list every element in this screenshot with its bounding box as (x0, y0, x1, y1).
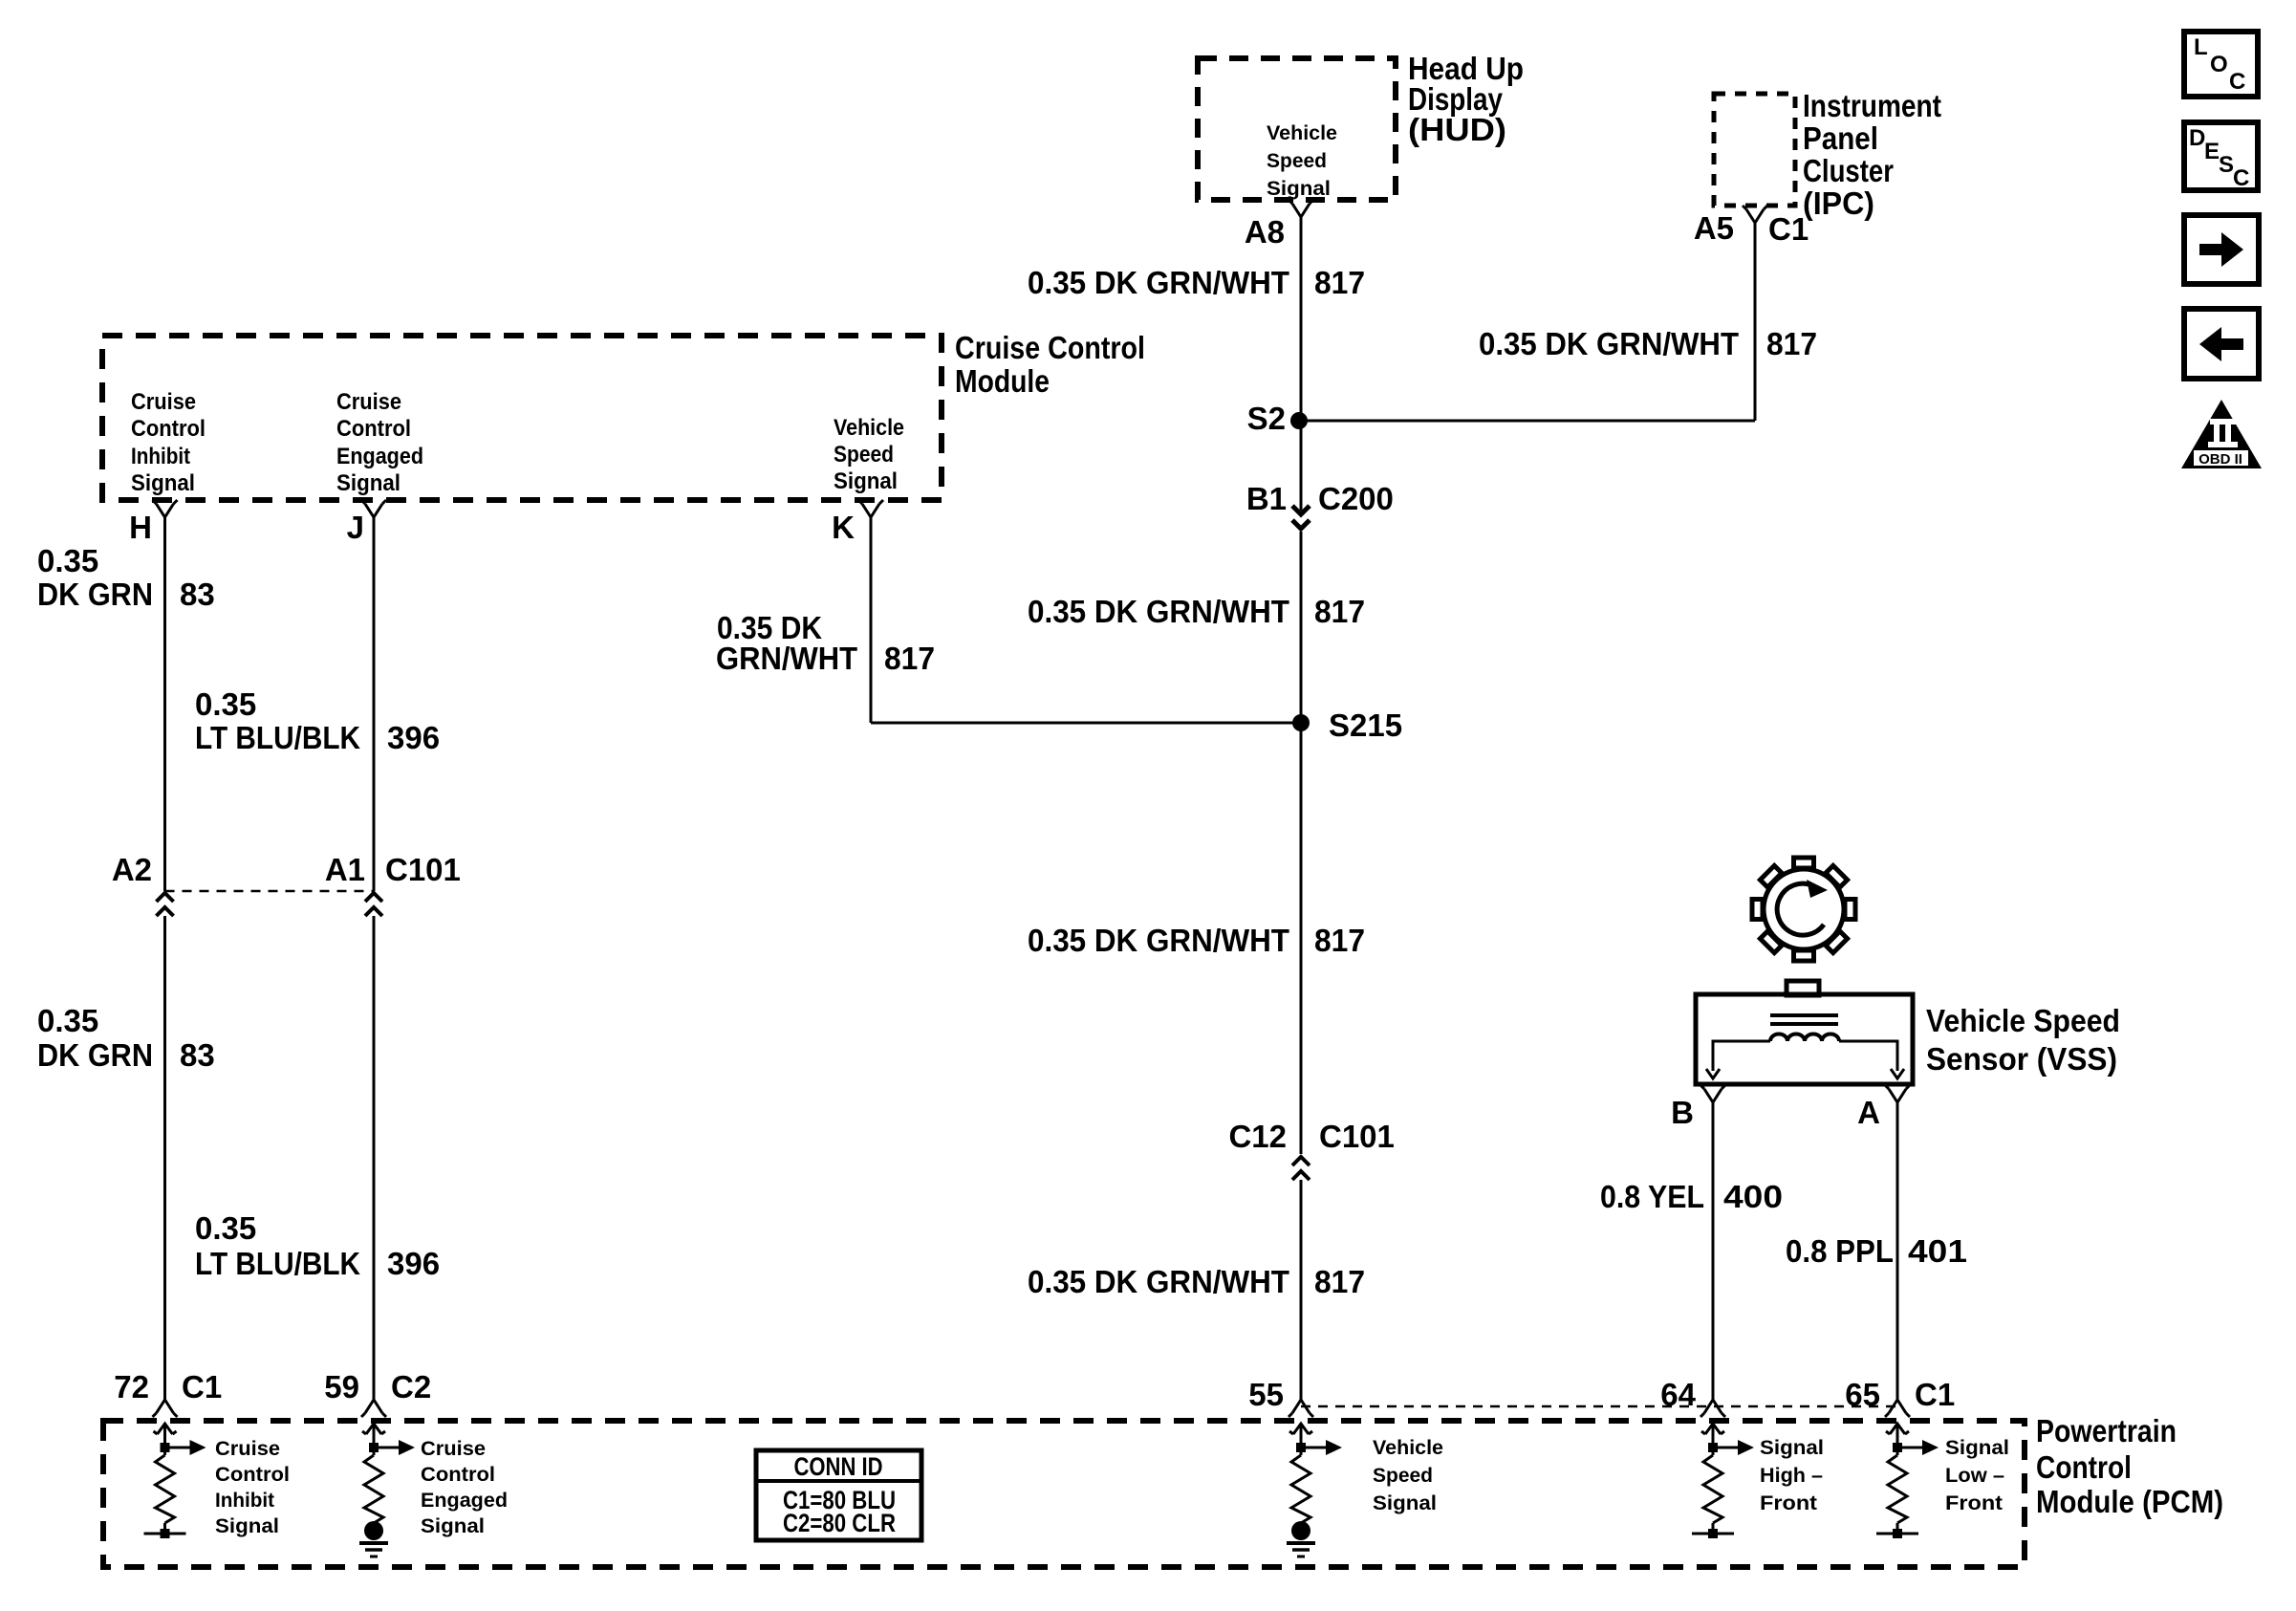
in-line connector C200 pin B1 (double chevrons) (1292, 506, 1310, 529)
splice S2 junction dot (1290, 412, 1308, 429)
svg-text:Signal: Signal (421, 1514, 485, 1537)
C101 label (C12) (1319, 1119, 1395, 1154)
svg-text:E: E (2204, 139, 2220, 164)
in-line connector C101 pin A2 chevrons (157, 893, 174, 916)
svg-text:Low –: Low – (1945, 1464, 2004, 1487)
svg-text:401: 401 (1908, 1233, 1967, 1269)
svg-text:GRN/WHT: GRN/WHT (716, 641, 857, 676)
pin A connector at VSS (1885, 1085, 1910, 1102)
C200 label (1318, 481, 1394, 516)
svg-text:83: 83 (180, 577, 215, 612)
svg-text:Cruise: Cruise (336, 389, 401, 415)
in-line connector C101 pin C12 chevrons (1292, 1157, 1310, 1180)
right arrow icon box (2184, 215, 2259, 284)
PCM input resistor circuit pin 65 (1876, 1424, 1939, 1538)
svg-text:Signal: Signal (215, 1514, 279, 1537)
pin A5 connector at IPC (1743, 206, 1767, 223)
svg-text:A: A (1857, 1095, 1880, 1130)
wire 817 from HUD A8 down to S2 (1300, 217, 1303, 421)
Powertrain Control Module (PCM) box (103, 1421, 2025, 1567)
svg-text:65: 65 (1845, 1377, 1880, 1412)
IPC title text (1803, 88, 1941, 221)
PCM internal label: Vehicle Speed Signal (1373, 1436, 1443, 1514)
svg-text:(IPC): (IPC) (1803, 185, 1874, 221)
wire label 0.35 DK GRN/WHT 817 (IPC drop) (1479, 326, 1817, 361)
CCM internal label: Cruise Control Engaged Signal (336, 389, 423, 496)
PCM input resistor circuit pin 55 with ground (1287, 1424, 1342, 1557)
PCM input resistor circuit pin 64 (1692, 1424, 1754, 1538)
wire K horizontal to S215 (871, 722, 1301, 725)
pin 64 connector at PCM (1700, 1400, 1725, 1417)
PCM title text (2036, 1413, 2223, 1519)
C101 label (A1) (385, 852, 461, 887)
VSS title text (1926, 1003, 2120, 1077)
svg-text:Instrument: Instrument (1803, 88, 1941, 123)
left arrow icon box (2184, 309, 2259, 379)
svg-text:Signal: Signal (1760, 1436, 1824, 1459)
pin 64 label (1660, 1377, 1696, 1412)
svg-text:396: 396 (387, 720, 440, 755)
svg-text:A8: A8 (1245, 214, 1285, 250)
pin K connector (858, 500, 883, 517)
svg-text:0.35 DK GRN/WHT: 0.35 DK GRN/WHT (1479, 326, 1739, 361)
svg-text:396: 396 (387, 1246, 440, 1281)
splice S215 junction dot (1292, 714, 1310, 731)
wire label 0.35 DK GRN/WHT 817 (C200-S215) (1028, 594, 1365, 629)
pin 65 connector at PCM (1885, 1400, 1910, 1417)
svg-text:817: 817 (1314, 1264, 1365, 1299)
C1 label (72) (182, 1369, 222, 1404)
CONN ID table (756, 1450, 921, 1540)
wire label 0.35 DK GRN/WHT 817 (C12-55) (1028, 1264, 1365, 1299)
wire label 0.35 DK GRN 83 (upper H) (37, 543, 215, 612)
pin 59 connector at PCM (361, 1400, 386, 1417)
svg-text:817: 817 (1314, 923, 1365, 958)
svg-text:Panel: Panel (1803, 120, 1878, 156)
svg-text:Module (PCM): Module (PCM) (2036, 1484, 2223, 1519)
svg-text:Control: Control (336, 416, 411, 442)
pin 72 label (114, 1369, 149, 1404)
PCM internal label: Cruise Control Engaged Signal (421, 1437, 508, 1537)
pin 55 connector at PCM (1289, 1400, 1313, 1417)
pin J label (347, 510, 364, 545)
wire H upper segment (163, 517, 166, 891)
svg-text:0.8 PPL: 0.8 PPL (1786, 1233, 1894, 1269)
svg-text:C200: C200 (1318, 481, 1394, 516)
svg-text:83: 83 (180, 1037, 215, 1073)
svg-text:Signal: Signal (1945, 1436, 2009, 1459)
VSS reluctor gear icon (1752, 858, 1855, 961)
in-line connector C101 pin A1 chevrons (365, 893, 382, 916)
svg-text:C1: C1 (182, 1369, 222, 1404)
svg-text:Front: Front (1945, 1491, 2003, 1514)
wire 817 from S215 to C101 C12 (1300, 723, 1303, 1154)
svg-text:817: 817 (1314, 265, 1365, 300)
svg-text:817: 817 (1766, 326, 1817, 361)
pin H label (129, 510, 152, 545)
wire label 0.35 DK GRN/WHT 817 (S215-C12) (1028, 923, 1365, 958)
svg-text:A5: A5 (1694, 210, 1734, 246)
svg-text:C: C (2233, 165, 2249, 191)
pin A8 label (1245, 214, 1285, 250)
svg-text:C1: C1 (1915, 1377, 1955, 1412)
svg-text:0.35: 0.35 (37, 1003, 98, 1038)
S215 label (1329, 708, 1402, 743)
PCM input resistor circuit pin 59 with ground (359, 1424, 415, 1557)
Head Up Display (HUD) module box (1198, 58, 1396, 200)
svg-text:C1: C1 (1768, 211, 1809, 247)
Cruise Control Module title (955, 330, 1145, 399)
pin H connector (153, 500, 178, 517)
HUD title text (1408, 51, 1524, 147)
pin 65 label (1845, 1377, 1880, 1412)
svg-text:Cruise: Cruise (131, 389, 196, 415)
svg-text:Cruise Control: Cruise Control (955, 330, 1145, 365)
wire H lower segment (163, 916, 166, 1400)
svg-text:(HUD): (HUD) (1408, 112, 1506, 147)
wire from K down to S215 level (870, 517, 873, 723)
svg-text:Inhibit: Inhibit (131, 444, 190, 469)
svg-text:Front: Front (1760, 1491, 1817, 1514)
pin 55 label (1248, 1377, 1284, 1412)
svg-text:Sensor (VSS): Sensor (VSS) (1926, 1041, 2117, 1077)
wire 817 from S2 to C200 (1300, 421, 1303, 511)
svg-text:Inhibit: Inhibit (215, 1489, 274, 1512)
svg-text:817: 817 (1314, 594, 1365, 629)
wire label 0.35 DK GRN/WHT 817 (HUD drop) (1028, 265, 1365, 300)
svg-text:Vehicle: Vehicle (1267, 121, 1337, 144)
svg-text:S2: S2 (1247, 401, 1286, 436)
wire from IPC A5 down to S2 branch (1754, 223, 1757, 421)
svg-text:0.35 DK GRN/WHT: 0.35 DK GRN/WHT (1028, 923, 1289, 958)
wire label 0.8 YEL 400 (1600, 1179, 1783, 1214)
svg-text:Signal: Signal (336, 470, 401, 496)
pin A label (1857, 1095, 1880, 1130)
CCM internal label: Cruise Control Inhibit Signal (131, 389, 206, 496)
PCM internal label: Signal High - Front (1760, 1436, 1824, 1514)
svg-text:C: C (2229, 69, 2245, 95)
LOC icon box (2184, 32, 2258, 97)
svg-text:Speed: Speed (1267, 149, 1327, 172)
pin C1 label at IPC (1768, 211, 1809, 247)
svg-text:Engaged: Engaged (421, 1489, 508, 1512)
svg-text:D: D (2189, 125, 2205, 151)
C101 dashed connector line A2-A1 (165, 890, 375, 893)
svg-text:Vehicle: Vehicle (834, 415, 904, 441)
Vehicle Speed Sensor (VSS) body box (1696, 981, 1913, 1084)
wire label 0.35 LT BLU/BLK 396 (upper J) (195, 686, 440, 755)
wire 817 from C12 to PCM pin 55 (1300, 1180, 1303, 1400)
pin 59 label (324, 1369, 359, 1404)
svg-text:Engaged: Engaged (336, 444, 423, 469)
svg-text:B1: B1 (1246, 481, 1287, 516)
svg-text:CONN ID: CONN ID (794, 1452, 883, 1481)
svg-text:LT BLU/BLK: LT BLU/BLK (195, 720, 360, 755)
svg-text:Control: Control (215, 1463, 290, 1486)
wire J upper segment (373, 517, 376, 891)
svg-text:Cluster: Cluster (1803, 153, 1894, 188)
svg-text:0.35 DK GRN/WHT: 0.35 DK GRN/WHT (1028, 594, 1289, 629)
Cruise Control Module box (102, 336, 942, 500)
svg-text:C2: C2 (391, 1369, 431, 1404)
svg-text:OBD II: OBD II (2199, 451, 2242, 468)
svg-text:C101: C101 (385, 852, 461, 887)
wire label 0.35 LT BLU/BLK 396 (lower J) (195, 1210, 440, 1281)
svg-text:Speed: Speed (1373, 1464, 1433, 1487)
PCM C1 connector thin dashed line (1301, 1405, 1897, 1408)
B1 label (1246, 481, 1287, 516)
S2 label (1247, 401, 1286, 436)
HUD internal label: Vehicle Speed Signal (1267, 121, 1337, 200)
svg-text:Signal: Signal (1267, 177, 1331, 200)
svg-text:K: K (832, 510, 855, 545)
pin A5 label (1694, 210, 1734, 246)
svg-text:A1: A1 (325, 852, 365, 887)
svg-text:Control: Control (421, 1463, 495, 1486)
svg-text:0.35: 0.35 (37, 543, 98, 578)
svg-text:L: L (2194, 34, 2208, 60)
C2 label (59) (391, 1369, 431, 1404)
svg-text:Module: Module (955, 363, 1050, 399)
svg-text:Vehicle: Vehicle (1373, 1436, 1443, 1459)
svg-text:J: J (347, 510, 364, 545)
svg-text:S215: S215 (1329, 708, 1402, 743)
svg-text:Vehicle Speed: Vehicle Speed (1926, 1003, 2120, 1038)
pin B connector at VSS (1700, 1085, 1725, 1102)
wire 817 from C200 to S215 (1300, 532, 1303, 723)
VSS core lines (1770, 1015, 1838, 1024)
svg-text:Signal: Signal (1373, 1491, 1437, 1514)
wire label 0.35 DK GRN/WHT 817 (K branch) (716, 610, 935, 676)
svg-text:S: S (2219, 152, 2234, 178)
CCM internal label: Vehicle Speed Signal (834, 415, 904, 494)
pin B label (1671, 1095, 1694, 1130)
svg-text:H: H (129, 510, 152, 545)
Instrument Panel Cluster (IPC) module box (1714, 94, 1795, 206)
svg-text:59: 59 (324, 1369, 359, 1404)
pin 72 connector at PCM (153, 1400, 178, 1417)
wire B to PCM 64 (1712, 1102, 1715, 1400)
svg-text:0.35: 0.35 (195, 1210, 256, 1246)
svg-text:DK GRN: DK GRN (37, 1037, 153, 1073)
svg-text:O: O (2210, 52, 2228, 77)
svg-text:0.35 DK GRN/WHT: 0.35 DK GRN/WHT (1028, 1264, 1289, 1299)
svg-text:LT BLU/BLK: LT BLU/BLK (195, 1246, 360, 1281)
svg-text:C12: C12 (1228, 1119, 1287, 1154)
svg-text:64: 64 (1660, 1377, 1696, 1412)
A2 label (112, 852, 152, 887)
svg-text:400: 400 (1723, 1179, 1783, 1214)
svg-text:0.8 YEL: 0.8 YEL (1600, 1179, 1704, 1214)
svg-text:Control: Control (131, 416, 206, 442)
svg-text:C101: C101 (1319, 1119, 1395, 1154)
PCM internal label: Cruise Control Inhibit Signal (215, 1437, 290, 1537)
svg-text:Signal: Signal (834, 468, 898, 494)
VSS internal leads with arrows (1706, 1041, 1904, 1078)
svg-text:A2: A2 (112, 852, 152, 887)
svg-text:Control: Control (2036, 1449, 2132, 1485)
svg-text:C2=80 CLR: C2=80 CLR (783, 1509, 896, 1537)
wire A to PCM 65 (1896, 1102, 1899, 1400)
PCM internal label: Signal Low - Front (1945, 1436, 2009, 1514)
svg-text:High –: High – (1760, 1464, 1823, 1487)
VSS inductor coil (1770, 1034, 1839, 1041)
OBD II icon (2181, 400, 2262, 468)
wire J lower segment (373, 916, 376, 1400)
pin J connector (361, 500, 386, 517)
wire label 0.35 DK GRN 83 (lower H) (37, 1003, 215, 1073)
svg-text:DK GRN: DK GRN (37, 577, 153, 612)
svg-text:Cruise: Cruise (215, 1437, 280, 1460)
svg-text:55: 55 (1248, 1377, 1284, 1412)
svg-text:0.35: 0.35 (195, 686, 256, 722)
svg-text:817: 817 (884, 641, 935, 676)
pin A8 connector at HUD (1289, 200, 1313, 217)
wire label 0.8 PPL 401 (1786, 1233, 1967, 1269)
wire S2 horizontal branch to IPC (1299, 420, 1755, 423)
PCM input resistor circuit pin 72 (144, 1424, 206, 1538)
svg-text:Powertrain: Powertrain (2036, 1413, 2177, 1448)
svg-text:Cruise: Cruise (421, 1437, 486, 1460)
svg-text:Signal: Signal (131, 470, 195, 496)
svg-text:B: B (1671, 1095, 1694, 1130)
svg-text:Speed: Speed (834, 442, 894, 468)
C12 label (1228, 1119, 1287, 1154)
DESC icon box (2184, 122, 2258, 191)
pin K label (832, 510, 855, 545)
C1 label (65) (1915, 1377, 1955, 1412)
A1 label (325, 852, 365, 887)
svg-text:72: 72 (114, 1369, 149, 1404)
svg-text:0.35 DK GRN/WHT: 0.35 DK GRN/WHT (1028, 265, 1289, 300)
